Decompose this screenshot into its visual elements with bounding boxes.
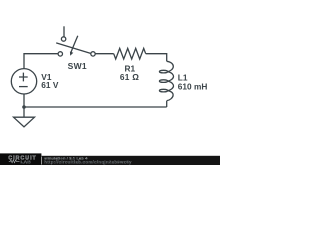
wire SW1 right terminal to R1 <box>95 53 113 55</box>
wire V1 minus terminal to bottom node <box>23 94 25 107</box>
wire V1 plus terminal to SW1 left terminal <box>24 54 58 69</box>
svg-text:610 mH: 610 mH <box>178 81 208 91</box>
svg-text:SW1: SW1 <box>68 61 87 71</box>
wire node to ground <box>23 107 25 117</box>
resistor R1 <box>114 48 146 59</box>
voltage source V1 <box>11 69 36 94</box>
ground <box>14 117 35 127</box>
switch SW1 <box>56 26 95 56</box>
watermark bar <box>0 156 220 165</box>
logo resistor zigzag <box>9 160 20 163</box>
svg-text:61 V: 61 V <box>41 80 59 90</box>
switch arrow head <box>70 52 73 56</box>
inductor L1 <box>159 61 173 100</box>
svg-text:http://circuitlab.com/c/nqjn2a: http://circuitlab.com/c/nqjn2ab9wz6y <box>44 160 132 165</box>
wire L1 bottom to corner <box>166 101 168 107</box>
CircuitLab logo box <box>0 153 41 165</box>
svg-text:61 Ω: 61 Ω <box>120 72 139 82</box>
wire bottom return <box>24 106 167 108</box>
wire R1 to top-right corner down to L1 <box>146 54 167 62</box>
logo separator line <box>40 157 43 165</box>
node junction dot <box>22 105 26 109</box>
svg-text:LAB: LAB <box>21 160 32 165</box>
